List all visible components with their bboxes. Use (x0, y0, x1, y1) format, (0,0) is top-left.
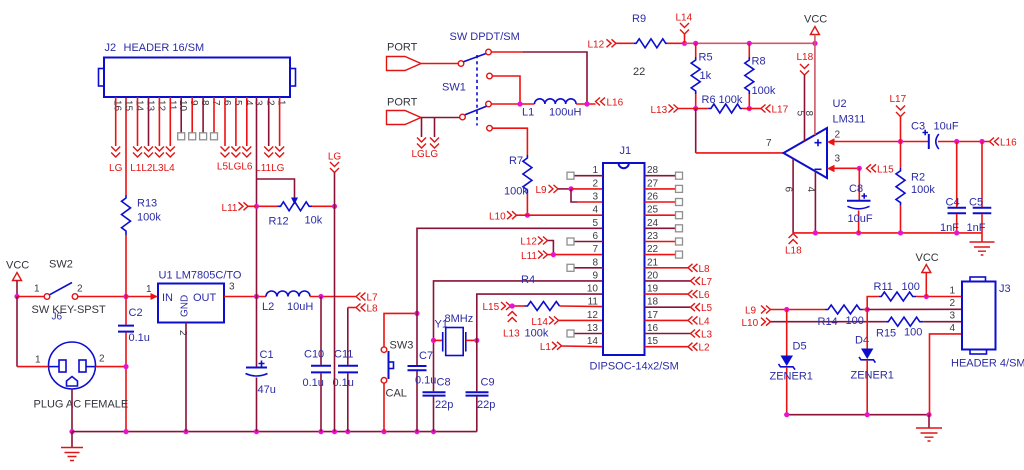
node R7/L10 junction (525, 213, 530, 218)
svg-text:0.1u: 0.1u (129, 332, 150, 344)
wire plug stem to ground bus (71, 389, 73, 432)
svg-text:15: 15 (123, 100, 134, 112)
wire VCC rail down to plug pin1 (16, 297, 18, 367)
wire J2 pin10 (NC) (180, 97, 182, 133)
wire L1 right to L16 node (576, 103, 595, 105)
svg-text:2: 2 (99, 354, 105, 365)
resistor R6 100k (696, 94, 750, 113)
svg-text:100k: 100k (719, 94, 743, 106)
wire J1 pin27 (NC) (645, 188, 676, 190)
svg-text:6: 6 (783, 187, 794, 193)
resistor R2 100k (896, 142, 935, 233)
off-page connector L1 (J2 pin14) (133, 147, 142, 158)
svg-text:2: 2 (77, 284, 83, 295)
wire LG line down through rail to bus (334, 173, 336, 432)
node pin3 junction (857, 166, 862, 171)
wire bottom-right ground bus (787, 414, 929, 416)
svg-text:C4: C4 (946, 197, 960, 209)
node crystal right junction (474, 338, 479, 343)
wire L1 to J1 pin14 (562, 345, 604, 348)
svg-text:100uH: 100uH (549, 107, 581, 119)
node SW3/C7 junction (414, 311, 419, 316)
off-page connector L18 (top, to U2 pin5) (797, 52, 814, 141)
wire J1 pin19 to L6 (645, 293, 689, 295)
svg-text:10: 10 (587, 284, 599, 295)
svg-text:2: 2 (592, 178, 598, 189)
connector PORT (upper) (387, 42, 422, 71)
off-page connector L4 (J2 pin11) (166, 147, 175, 158)
capacitor C9 22p (466, 377, 496, 432)
svg-text:L17: L17 (772, 105, 789, 116)
svg-text:L4: L4 (699, 316, 711, 327)
wire SW1 top throw to L16 node (491, 51, 523, 53)
svg-text:L15: L15 (483, 302, 500, 313)
svg-text:100k: 100k (504, 186, 528, 198)
node J1 pin7 junction (551, 252, 556, 257)
off-page connector L8 (356, 304, 378, 315)
off-page connector L2 (J2 pin13) (144, 147, 153, 158)
regulator U1 LM7805C/TO (146, 270, 242, 337)
wire U2 pin4 down (814, 172, 816, 233)
no-connect square J2 pin8 (200, 133, 207, 140)
no-connect square J1 pin13 (567, 330, 574, 337)
svg-text:R4: R4 (521, 274, 535, 286)
wire PORT2 to SW1 lower pole (421, 117, 460, 119)
node R14 right junction (865, 307, 870, 312)
wire L15 to resistor (511, 305, 525, 307)
svg-text:ZENER1: ZENER1 (851, 370, 894, 382)
svg-text:LG: LG (328, 152, 342, 163)
resistor 100k (J1 pin11) (525, 302, 604, 340)
wire U1 pin3 to L2 (224, 296, 266, 298)
wire J1 pin21 to L8 (645, 267, 689, 269)
wire J1 pin17 to L4 (645, 319, 689, 321)
svg-text:100: 100 (846, 315, 864, 327)
wire junction up to R11 (867, 297, 879, 310)
capacitor C7 0.1u (408, 350, 437, 432)
power symbol VCC (bottom right) (916, 252, 939, 297)
ground (under C5) (970, 233, 995, 255)
no-connect square J2 pin9 (189, 133, 196, 140)
svg-text:10uH: 10uH (287, 301, 313, 313)
wire stub to LG (right) (434, 118, 436, 138)
capacitor C11 0.1u (333, 308, 359, 432)
off-page connector L15 (right) (867, 164, 895, 175)
svg-text:7: 7 (766, 138, 772, 149)
svg-text:100k: 100k (525, 328, 549, 340)
svg-text:PORT: PORT (387, 97, 418, 109)
svg-text:9: 9 (188, 100, 199, 106)
svg-text:C9: C9 (481, 377, 495, 389)
wire U2 lower rail (793, 232, 982, 234)
svg-text:14: 14 (587, 336, 599, 347)
svg-text:HEADER 4/SM: HEADER 4/SM (951, 358, 1024, 370)
header J2 HEADER 16/SM (99, 42, 296, 97)
capacitor C3 10uF (911, 121, 990, 150)
ground (bottom right) (916, 415, 942, 441)
svg-text:8: 8 (592, 257, 598, 268)
off-page connector L15 (483, 302, 511, 313)
off-page connector L17 (above R2) (890, 94, 907, 142)
svg-text:C2: C2 (129, 307, 143, 319)
node L14 junction (682, 41, 687, 46)
svg-text:17: 17 (647, 310, 659, 321)
svg-text:L13: L13 (503, 329, 520, 340)
IC J1 DIPSOC-14x2/SM (590, 145, 679, 373)
svg-text:19: 19 (647, 284, 659, 295)
svg-text:3: 3 (835, 154, 841, 165)
svg-text:R2: R2 (911, 172, 925, 184)
svg-text:1: 1 (276, 100, 287, 106)
node R5 bottom junction (693, 106, 698, 111)
off-page connector L13 (below) (503, 312, 520, 340)
off-page connector LG (port, right) (430, 138, 439, 149)
svg-text:L11LG: L11LG (255, 163, 285, 174)
svg-text:14: 14 (134, 100, 145, 112)
svg-text:22: 22 (647, 244, 659, 255)
node VCC/J3 pin1 junction (924, 294, 929, 299)
svg-text:R14: R14 (818, 316, 838, 328)
node C10 junction (318, 294, 323, 299)
header J3 HEADER 4/SM (949, 277, 1024, 370)
svg-text:L1L2L3L4: L1L2L3L4 (130, 163, 175, 174)
svg-text:15: 15 (647, 336, 659, 347)
no-connect square J1 pin1 (567, 172, 574, 179)
wire rail to SW2 pin1 (17, 296, 44, 298)
svg-text:L9: L9 (745, 306, 757, 317)
crystal Y1 8MHz (434, 313, 477, 356)
svg-text:U2: U2 (833, 98, 847, 110)
svg-text:J1: J1 (620, 145, 632, 157)
svg-text:8MHz: 8MHz (445, 313, 474, 325)
svg-text:1nF: 1nF (967, 222, 986, 234)
off-page connector L4 (J1 pin17) (688, 316, 710, 327)
wire J2 pin5 (235, 97, 237, 146)
off-page connector L14 (to J1 pin12) (531, 316, 558, 328)
svg-text:C1: C1 (260, 349, 274, 361)
wire J1 pin8 (NC) (574, 267, 603, 269)
wire L11 to J1 pin7 (548, 254, 604, 256)
node R12 left junction (L11) (254, 204, 259, 209)
wire J1 pin5 feed (long) (417, 228, 603, 365)
svg-text:L7: L7 (701, 277, 713, 288)
svg-text:L18: L18 (797, 52, 814, 63)
svg-text:C8: C8 (437, 377, 451, 389)
svg-text:R6: R6 (702, 94, 716, 106)
svg-text:L1: L1 (540, 342, 552, 353)
no-connect square J1 pin6 (567, 238, 574, 245)
svg-text:LGLG: LGLG (412, 149, 439, 160)
off-page connector LG (J2 pin1) (275, 147, 284, 158)
svg-text:L7: L7 (367, 293, 379, 304)
svg-text:10k: 10k (305, 215, 323, 227)
J2 pin numbers (112, 100, 287, 112)
wire L10 to J1 pin4 (517, 214, 604, 216)
resistor R11 100 (874, 281, 963, 301)
wire L2 to L7 off-page (310, 296, 356, 298)
svg-text:L16: L16 (607, 98, 624, 109)
capacitor C8 10uF (at U2) (847, 168, 873, 233)
svg-text:7: 7 (210, 100, 221, 106)
wire R14 node to J3 pin2 (867, 308, 962, 310)
svg-text:1k: 1k (700, 70, 712, 82)
svg-text:R9: R9 (632, 13, 646, 25)
ground (bottom left) (61, 432, 83, 461)
off-page connector L5 (J1 pin18) (691, 303, 713, 314)
node D5 junction (784, 307, 789, 312)
svg-text:ZENER1: ZENER1 (770, 371, 813, 383)
switch SW3 (CAL) (381, 340, 413, 400)
wire J1 pin22 (NC) (645, 254, 676, 256)
svg-text:0.1u: 0.1u (303, 377, 324, 389)
wire J1 pin24 (NC) (645, 227, 676, 229)
off-page connector LG (above R12) (328, 152, 342, 173)
connector PORT (lower) (387, 97, 422, 125)
node L2 left junction (254, 294, 259, 299)
svg-text:20: 20 (647, 270, 659, 281)
svg-text:25: 25 (647, 205, 659, 216)
node VCC top junction (812, 41, 817, 46)
capacitor C5 1nF (967, 142, 992, 235)
svg-text:R13: R13 (137, 198, 157, 210)
node bus junctions (123, 429, 436, 434)
svg-text:4: 4 (949, 323, 955, 334)
off-page connector L2 (J1 pin15) (688, 343, 710, 354)
node gnd bus junction (926, 412, 931, 417)
svg-text:7: 7 (592, 244, 598, 255)
svg-text:21: 21 (647, 257, 659, 268)
svg-text:22p: 22p (435, 399, 453, 411)
svg-text:DIPSOC-14x2/SM: DIPSOC-14x2/SM (590, 361, 679, 373)
wire J1 pin13 (NC) (574, 333, 603, 335)
off-page connector L13 (to R5/R6) (651, 105, 696, 117)
wire J2 pin4 (246, 97, 248, 146)
wire U2 output (pin 7) (696, 152, 784, 154)
off-page connector L9 (536, 185, 559, 196)
wire SW1 fourth throw to R7 (492, 128, 527, 155)
wire jog L9 node to J1 pin3 (571, 189, 577, 202)
svg-text:L5: L5 (701, 303, 713, 314)
svg-text:3: 3 (253, 100, 264, 106)
svg-text:CAL: CAL (386, 388, 407, 400)
svg-text:C5: C5 (969, 197, 983, 209)
svg-text:J2: J2 (105, 42, 117, 54)
svg-text:L12: L12 (520, 237, 537, 248)
svg-text:28: 28 (647, 165, 659, 176)
wire stub to LG (left) (421, 118, 423, 138)
node D4 bus junction (865, 412, 870, 417)
wire U2 pin2 to C3 (834, 141, 929, 143)
inductor L2 10uH (262, 291, 313, 313)
wire J2 pin6 (224, 97, 226, 146)
off-page connector L3 (J1 pin16) (691, 330, 713, 341)
wire J2 pin2 (268, 97, 270, 146)
wire J1 pin15 to L2 (645, 346, 689, 348)
wire L12 jog down to pin7 (548, 241, 554, 255)
inductor L1 100uH (522, 99, 581, 119)
svg-text:1: 1 (592, 165, 598, 176)
svg-text:SW2: SW2 (49, 259, 73, 271)
capacitor C4 1nF (940, 142, 966, 235)
svg-text:L11: L11 (222, 203, 238, 214)
off-page connector L6 (J1 pin19) (688, 290, 710, 301)
diode D5 ZENER1 (770, 310, 813, 415)
svg-text:U1 LM7805C/TO: U1 LM7805C/TO (159, 270, 242, 282)
off-page connector L10 (489, 211, 517, 223)
svg-text:HEADER 16/SM: HEADER 16/SM (124, 42, 205, 54)
off-page connector L12 (to J1 pin7) (520, 237, 547, 248)
wire J1 pin26 (NC) (645, 201, 676, 203)
node R8 bottom junction (747, 106, 752, 111)
svg-text:1: 1 (34, 284, 40, 295)
wire J2 pin16 (115, 97, 117, 146)
wire J1 pin28 (NC) (645, 175, 676, 177)
svg-text:C10: C10 (304, 349, 324, 361)
svg-text:PLUG AC FEMALE: PLUG AC FEMALE (34, 399, 129, 411)
resistor R7 100k (504, 155, 532, 215)
svg-text:R8: R8 (752, 56, 766, 68)
wire J2 pin8 (NC) (202, 97, 204, 133)
svg-text:16: 16 (647, 323, 659, 334)
off-page connector L11 (J2 pin2) (264, 147, 273, 158)
svg-text:L8: L8 (699, 264, 711, 275)
off-page connector L17 (at R8 bottom) (749, 105, 788, 116)
svg-text:SW KEY-SPST: SW KEY-SPST (32, 304, 106, 316)
off-page connector L9 (bottom right) (745, 306, 771, 317)
node C4 top junction (954, 139, 959, 144)
no-connect square J1 pin8 (567, 264, 574, 271)
wire J2 pin14 (137, 97, 139, 146)
off-page connector L11 (to J1 pin7) (521, 251, 547, 262)
svg-text:10uF: 10uF (934, 121, 959, 133)
svg-text:L9: L9 (536, 185, 548, 196)
node L13 junction (510, 303, 515, 308)
svg-text:6: 6 (221, 100, 232, 106)
svg-text:LG: LG (109, 163, 123, 174)
svg-text:16: 16 (112, 100, 123, 112)
svg-text:4: 4 (243, 100, 254, 106)
svg-text:L8: L8 (367, 304, 379, 315)
off-page connector L12 (top, to R9) (588, 39, 617, 50)
node L1/L16 junction (584, 101, 589, 106)
svg-text:L10: L10 (489, 212, 506, 223)
wire J2 pin3 long feed down to R12/rail/C1 (256, 97, 258, 297)
svg-text:3: 3 (592, 192, 598, 203)
resistor R15 100 (876, 317, 962, 339)
wire J2 pin11 (169, 97, 171, 146)
node crystal left junction (431, 338, 436, 343)
svg-text:PORT: PORT (387, 42, 418, 54)
node C8 bottom junction (856, 230, 861, 235)
svg-text:L6: L6 (699, 290, 711, 301)
wire J1 pin16 to L3 (645, 333, 691, 335)
svg-text:R11: R11 (874, 281, 893, 293)
svg-text:12: 12 (155, 100, 166, 112)
resistor R5 1k (691, 43, 712, 108)
J2 off-page labels (109, 162, 285, 175)
wire J2 pin12 (158, 97, 160, 146)
svg-text:18: 18 (647, 297, 659, 308)
svg-text:L14: L14 (531, 317, 548, 328)
svg-text:R12: R12 (269, 216, 289, 228)
svg-text:13: 13 (145, 100, 156, 112)
ground bus wire (bottom) (72, 431, 477, 433)
capacitor C1 47u (246, 297, 276, 432)
svg-text:100: 100 (902, 281, 920, 293)
svg-text:L17: L17 (890, 94, 907, 105)
svg-text:6: 6 (592, 231, 598, 242)
comparator U2 LM311 (766, 98, 865, 193)
svg-text:L3: L3 (701, 330, 713, 341)
svg-text:9: 9 (592, 270, 598, 281)
power symbol VCC (top right) (804, 14, 827, 44)
svg-text:SW1: SW1 (442, 82, 466, 94)
svg-text:D5: D5 (793, 341, 807, 353)
svg-text:L14: L14 (676, 13, 693, 24)
svg-text:2: 2 (835, 130, 841, 141)
svg-text:100k: 100k (137, 212, 161, 224)
no-connect square J2 pin10 (178, 133, 185, 140)
svg-text:3: 3 (229, 282, 235, 293)
svg-text:L16: L16 (1000, 138, 1017, 149)
off-page connector L7 (356, 293, 378, 304)
svg-text:C8: C8 (849, 183, 863, 195)
svg-text:VCC: VCC (916, 252, 939, 264)
off-page connector L6 (J2 pin4) (242, 147, 251, 158)
svg-text:2: 2 (265, 100, 276, 106)
svg-text:100: 100 (904, 327, 922, 339)
svg-text:GND: GND (180, 295, 191, 317)
pin 3 input arrow (827, 165, 835, 172)
svg-text:J3: J3 (999, 283, 1011, 295)
off-page connector L7 (J1 pin20) (691, 277, 713, 288)
node R12 right junction (LG) (332, 204, 337, 209)
off-page connector L11 (to R12) (222, 202, 257, 214)
wire J2 pin9 (NC) (191, 97, 193, 133)
svg-text:27: 27 (647, 178, 659, 189)
J1 left pin numbers (587, 165, 599, 347)
svg-text:IN: IN (162, 292, 173, 304)
capacitor C2 0.1u (118, 297, 150, 432)
node C2/R13 junction (123, 294, 128, 299)
wire U2 pin3 to L15 (834, 167, 860, 169)
svg-text:10: 10 (177, 100, 188, 112)
off-page connector L1 (to J1 pin14) (540, 342, 562, 353)
wire R12 wiper feed (257, 179, 295, 198)
switch SW2 SW KEY-SPST (32, 259, 106, 323)
wire SW2 pin2 to U1 pin1 (78, 296, 151, 298)
svg-text:1: 1 (35, 355, 41, 366)
svg-text:4: 4 (805, 187, 816, 193)
svg-text:L12: L12 (588, 39, 605, 50)
wire J1 pin18 to L5 (645, 306, 691, 308)
wire U2 output feed up to R5/R6 node (695, 109, 697, 153)
wire plug pin2 to C2 line (96, 366, 127, 368)
capacitor C8 22p (423, 377, 454, 432)
svg-text:C11: C11 (334, 349, 353, 361)
svg-text:R7: R7 (509, 155, 523, 167)
pin 2 input arrow (827, 138, 835, 145)
off-page connector L14 (top) (676, 13, 693, 44)
wire U1 GND to bus (185, 323, 187, 432)
svg-text:L13: L13 (651, 105, 668, 116)
svg-text:13: 13 (587, 323, 599, 334)
off-page connector L3 (J2 pin12) (155, 147, 164, 158)
svg-text:L1: L1 (522, 107, 534, 119)
svg-text:L2: L2 (699, 343, 711, 354)
wire L8 stub to C11 (348, 307, 356, 309)
svg-text:2: 2 (949, 298, 955, 309)
